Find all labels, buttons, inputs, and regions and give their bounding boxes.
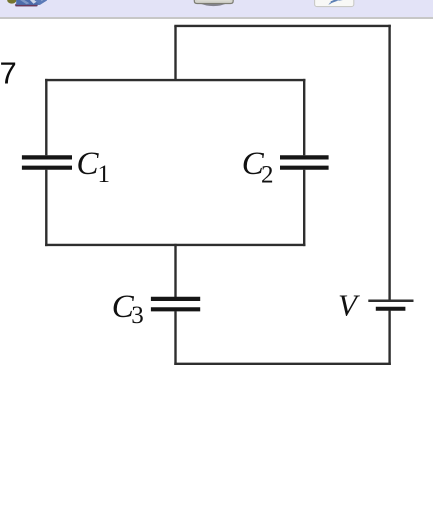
svg-text:2: 2	[261, 162, 274, 189]
toolbar icon: blue document icon	[15, 0, 48, 7]
svg-text:7: 7	[0, 56, 17, 91]
wire: outer right vertical lower (battery to bottom wire)	[388, 311, 390, 365]
toolbar icon: grey printer base (middle)	[194, 0, 233, 6]
wire: inner rect right above C2	[303, 79, 305, 155]
wire: middle stem (inner rect bottom to C3 top plate)	[174, 244, 176, 297]
capacitor C2	[280, 157, 329, 167]
toolbar icon: white button with blue pen (right)	[315, 0, 354, 7]
svg-text:V: V	[338, 287, 360, 322]
toolbar icon: olive blob (left)	[7, 0, 16, 4]
wire: outer right vertical upper (top wire down to battery)	[388, 25, 390, 300]
svg-text:1: 1	[98, 161, 111, 188]
wire: inner rect bottom horizontal	[45, 244, 305, 246]
wire: middle stem (C3 bottom plate to outer bottom wire)	[174, 311, 176, 365]
wire: inner rect right below C2	[303, 170, 305, 246]
capacitor C3	[151, 299, 200, 309]
wire: inner rect top horizontal	[45, 79, 305, 81]
svg-text:3: 3	[131, 302, 144, 329]
wire: inner rect left below C1	[45, 170, 47, 246]
wire: outer bottom horizontal	[174, 363, 390, 365]
battery V	[368, 301, 413, 309]
toolbar strip	[0, 0, 433, 19]
wire: outer top horizontal	[174, 25, 390, 27]
wire: middle stem top (inner rect top to outer top wire)	[174, 26, 176, 80]
capacitor C1	[22, 157, 72, 167]
wire: inner rect left above C1	[45, 79, 47, 155]
svg-text:C: C	[77, 146, 100, 182]
